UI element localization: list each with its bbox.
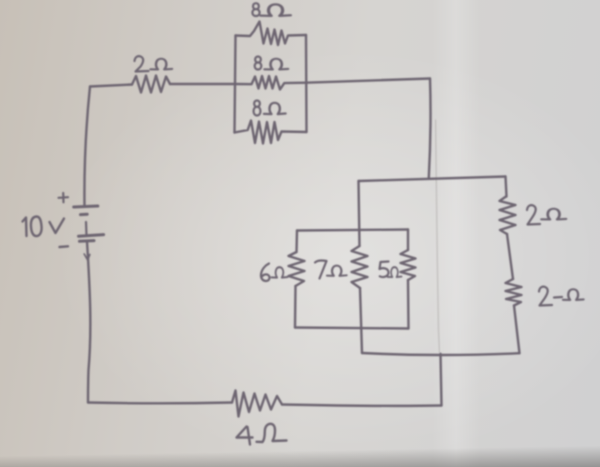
battery plate long bottom [79, 235, 104, 237]
wire: top wire from box to top-right corner [306, 79, 430, 83]
battery plate long top [74, 206, 98, 207]
resistor R1 2ohm (top left, horizontal) [132, 76, 170, 93]
label 2 ohm for R1 [135, 56, 173, 71]
wire: right block bottom edge [362, 353, 520, 355]
resistor R4 8ohm (bottom of box) [235, 121, 307, 144]
label 10V source value [23, 217, 65, 237]
wire: inner box bottom edge [295, 328, 409, 329]
wire: right vertical drop from top wire to right block [429, 79, 431, 178]
label 6 ohm for R8 [261, 264, 288, 282]
label 2 ohm for R5 [527, 205, 566, 224]
resistor R6 2ohm (right, lower, vertical) [506, 279, 522, 306]
wire: inner box right edge lower lead [407, 280, 410, 329]
wire: right edge lower lead to bottom right corner [514, 306, 520, 354]
wire: top wire from top-left corner to 2-ohm resistor [90, 85, 132, 87]
wire: bottom wire left segment [88, 401, 232, 404]
wire: inner box left edge upper lead [295, 231, 298, 253]
wire: box right edge [305, 35, 308, 132]
label minus terminal [60, 245, 69, 248]
resistor R5 2ohm (right, upper, vertical) [500, 197, 516, 235]
wire: top wire from R1 to parallel box [170, 83, 236, 85]
wire: right block left edge lower segment [360, 288, 362, 353]
wire: right block left edge upper segment [359, 181, 360, 246]
wire: right edge between the two 2-ohm resistors [507, 234, 513, 279]
wire: right block top edge [359, 177, 506, 182]
wire: inner box right edge upper lead [407, 230, 409, 251]
wire: left wire upper segment (top-left corner to battery plus) [84, 87, 90, 206]
wire: box left edge [235, 36, 236, 133]
current arrow on left wire [84, 254, 90, 260]
resistor R7 7ohm (middle branch, vertical) [352, 246, 368, 288]
label 4 ohm for R10 [237, 424, 287, 445]
wire: inner box left edge lower lead [294, 286, 297, 328]
battery V1 10V [74, 206, 104, 241]
resistor R10 4ohm (bottom, horizontal) [232, 391, 282, 417]
label 8 ohm for R4 [254, 101, 286, 116]
label 7 ohm for R7 [315, 261, 347, 279]
wire: right block right edge upper lead [506, 177, 507, 197]
resistor R9 5ohm (inner right, vertical) [401, 250, 416, 280]
resistor R2 8ohm (top of box) [236, 22, 307, 46]
wire: inner box top edge [297, 230, 408, 231]
battery plate short top [81, 213, 88, 216]
wire: left wire lower segment (battery minus to bottom-left corner) [87, 242, 90, 403]
label plus terminal [59, 193, 69, 202]
wire: drop from right block bottom to bottom wire [441, 354, 442, 406]
resistor R8 6ohm (inner left, vertical) [289, 252, 305, 286]
wire: battery inner connector [85, 222, 88, 236]
battery plate short bottom [80, 239, 95, 243]
label 5 ohm for R9 [380, 262, 402, 278]
label 8 ohm for R2 [252, 3, 290, 16]
resistor R3 8ohm (middle of box, on main wire) [236, 76, 307, 90]
label 8 ohm for R3 [255, 57, 288, 70]
label 2 ohm for R6 [539, 287, 584, 306]
wire: bottom wire right segment [282, 405, 442, 406]
